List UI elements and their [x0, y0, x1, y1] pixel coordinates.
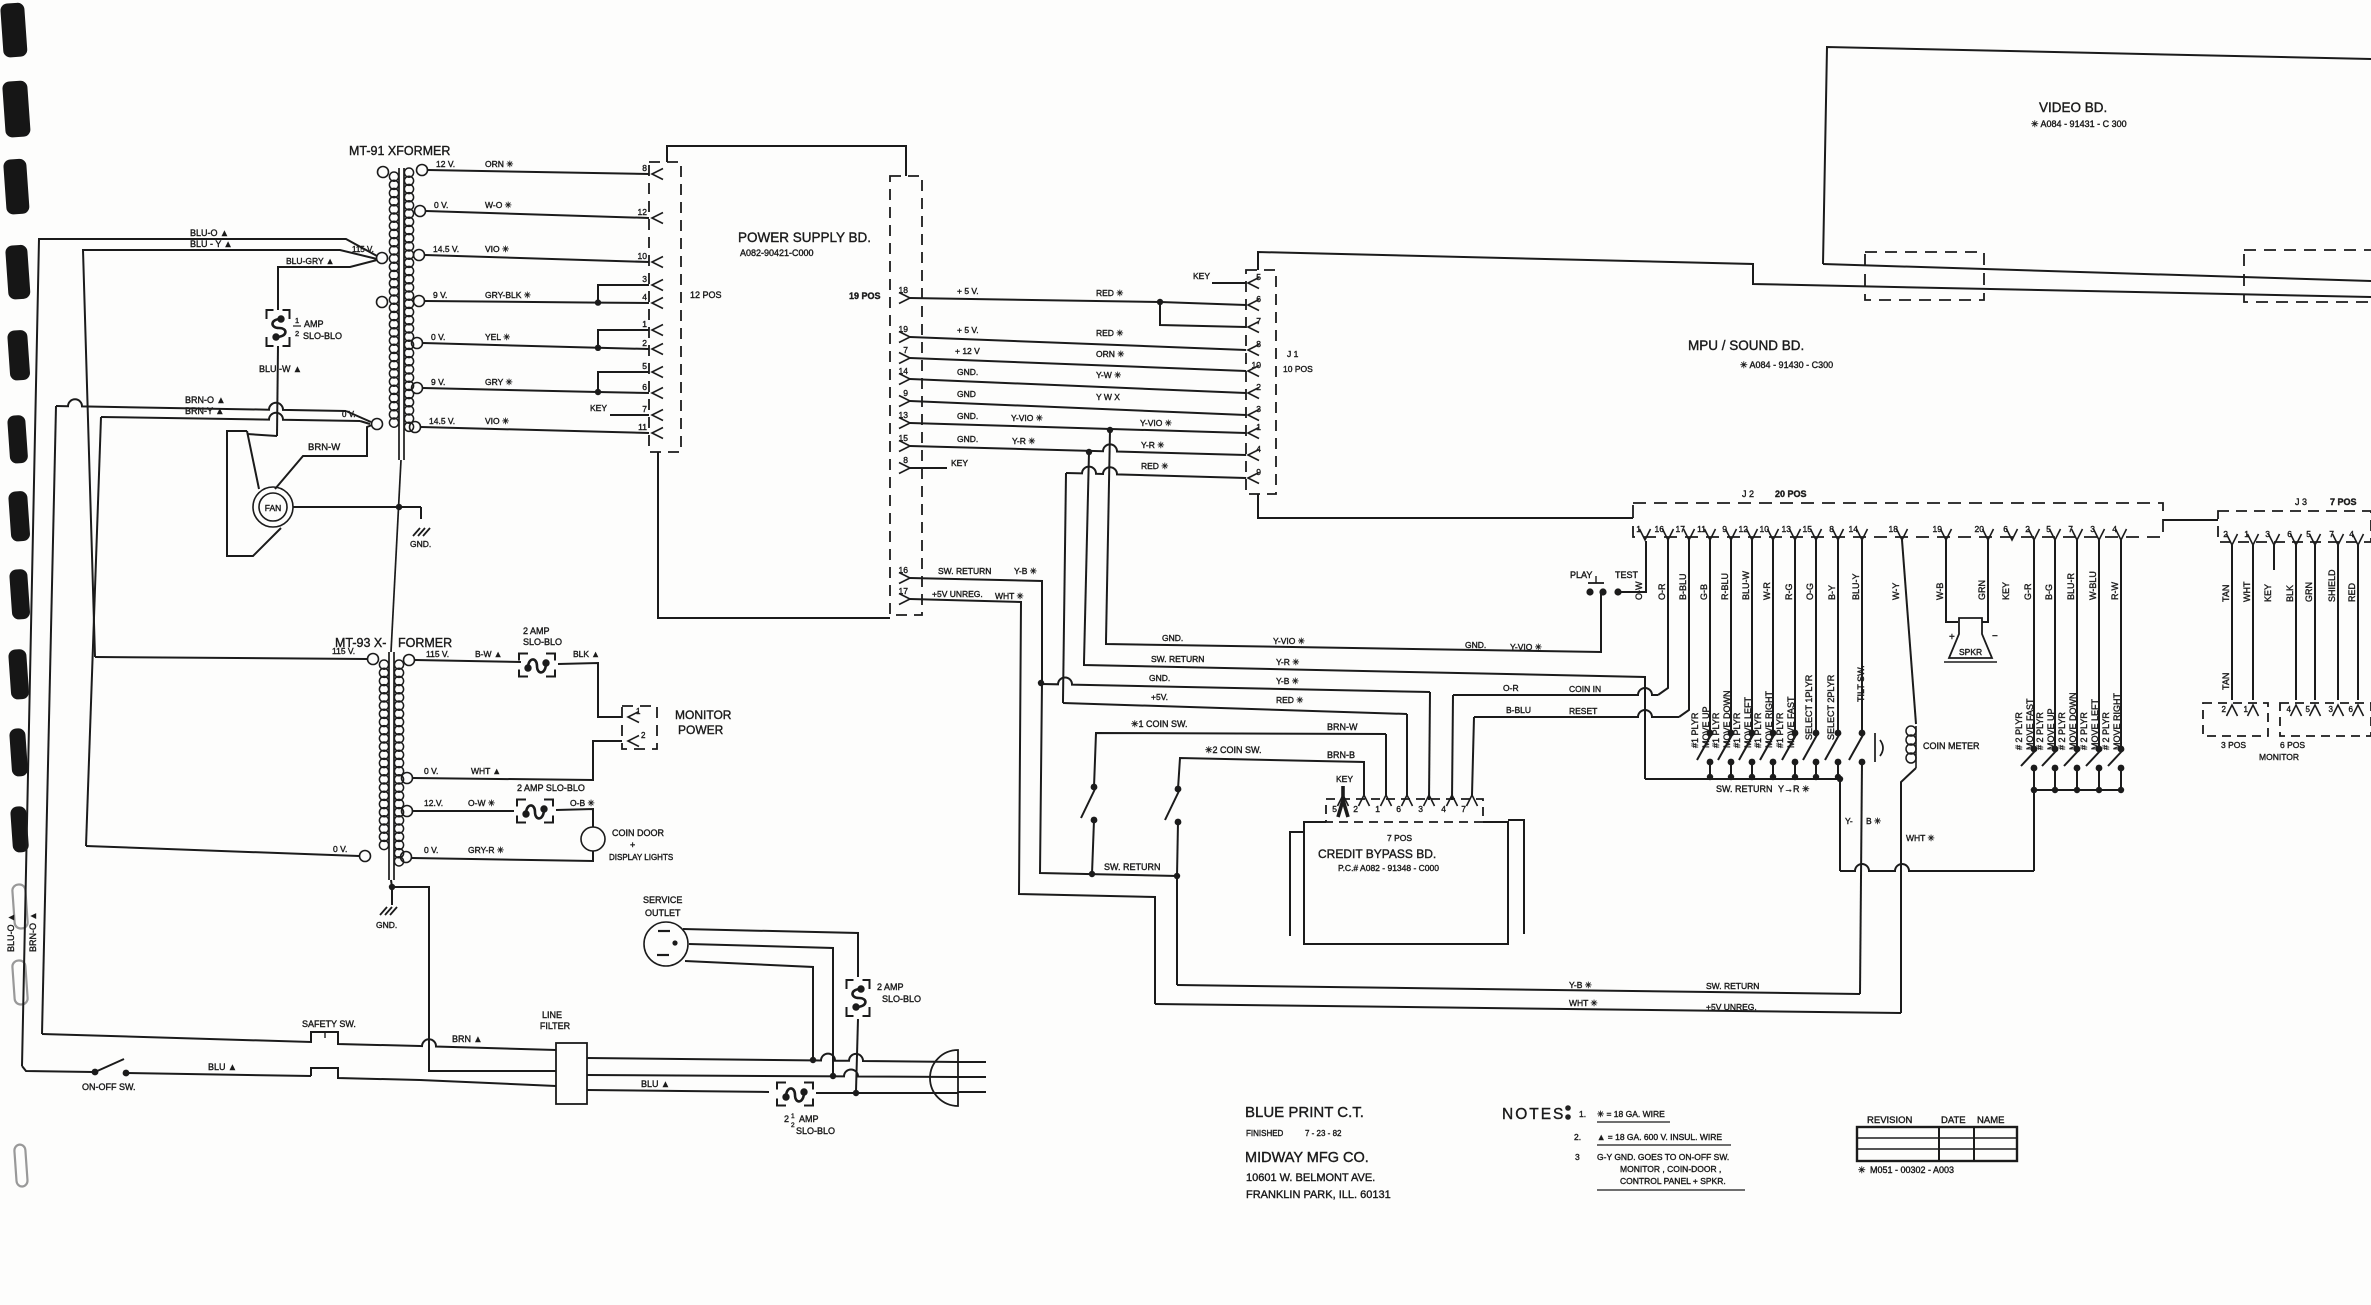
svg-text:MOVE LEFT: MOVE LEFT — [2090, 698, 2100, 750]
wire / switch #1 PLYR MOVE DOWN — [1730, 540, 1732, 733]
svg-text:RED ✳: RED ✳ — [1096, 288, 1124, 298]
wire H-D +5V / RED to credit bypass pin6 — [1062, 700, 1064, 703]
wire Y-B from tilt switch down to bottom bus — [1860, 762, 1862, 994]
svg-text:PLAY: PLAY — [1570, 570, 1592, 580]
svg-text:M051 - 00302 - A003: M051 - 00302 - A003 — [1870, 1165, 1954, 1175]
svg-text:BLU -W ▲: BLU -W ▲ — [259, 364, 302, 374]
svg-text:GND.: GND. — [957, 434, 978, 444]
svg-text:O-R: O-R — [1503, 683, 1519, 693]
transformer MT-91 primary winding — [389, 172, 398, 181]
svg-text:5: 5 — [1332, 804, 1337, 814]
wire fan to ground junction — [293, 506, 421, 508]
svg-text:# 2 PLYR: # 2 PLYR — [2057, 712, 2067, 750]
svg-text:7: 7 — [1256, 316, 1261, 326]
wire bus A drop / H1 link to player2 bus (hops Y-B and WHT) — [1839, 779, 1841, 871]
svg-text:SPKR: SPKR — [1959, 647, 1982, 657]
svg-text:115 V.: 115 V. — [352, 245, 374, 254]
wire SW.RETURN Y-B from PS pin16 down to distribution — [910, 578, 1042, 682]
svg-text:Y-: Y- — [1845, 816, 1853, 826]
board POWER SUPPLY BD. outline — [667, 146, 906, 176]
wire / switch SELECT 2PLYR — [1837, 540, 1839, 733]
svg-text:12: 12 — [1739, 524, 1749, 534]
svg-text:KEY: KEY — [590, 403, 607, 413]
svg-text:#1 PLYR: #1 PLYR — [1711, 712, 1721, 748]
svg-text:J 1: J 1 — [1287, 349, 1299, 359]
switch #1 coin switch — [1091, 784, 1098, 791]
svg-text:+: + — [1949, 632, 1955, 643]
svg-text:GRN: GRN — [2304, 582, 2314, 602]
svg-text:1: 1 — [2244, 529, 2249, 539]
svg-text:P.C.# A082 - 91348 - C000: P.C.# A082 - 91348 - C000 — [1338, 863, 1439, 873]
svg-text:SW. RETURN: SW. RETURN — [1706, 981, 1759, 991]
svg-text:W-Y: W-Y — [1891, 583, 1901, 600]
svg-text:20: 20 — [1975, 524, 1985, 534]
svg-text:KEY: KEY — [2263, 584, 2273, 602]
transformer MT-91 core — [398, 168, 400, 460]
svg-text:# 2 PLYR: # 2 PLYR — [2014, 712, 2024, 750]
svg-text:MT-91 XFORMER: MT-91 XFORMER — [349, 144, 450, 158]
svg-text:✳1 COIN SW.: ✳1 COIN SW. — [1131, 719, 1188, 729]
svg-text:Y-B ✳: Y-B ✳ — [1276, 676, 1300, 686]
wire branch junction to 12POS pin 5 — [595, 389, 601, 395]
svg-text:2: 2 — [2025, 524, 2030, 534]
svg-text:11: 11 — [638, 422, 647, 432]
MT-91 secondary terminal 0 V. / wire W-O ✳ to 12POS pin 12 — [415, 206, 426, 217]
svg-text:WHT ✳: WHT ✳ — [995, 591, 1025, 601]
svg-text:B-Y: B-Y — [1827, 585, 1837, 600]
svg-text:TAN: TAN — [2221, 585, 2231, 602]
switch ON-OFF SW. — [22, 1066, 93, 1072]
svg-text:+ 5 V.: + 5 V. — [957, 325, 979, 335]
svg-text:G-R: G-R — [2023, 583, 2033, 600]
svg-text:VIO ✳: VIO ✳ — [485, 416, 510, 426]
speaker SPKR — [1949, 618, 1992, 658]
svg-text:0 V.: 0 V. — [342, 410, 356, 419]
svg-text:Y→R ✳: Y→R ✳ — [1778, 784, 1810, 794]
svg-text:BRN-W: BRN-W — [308, 442, 340, 453]
svg-text:B-G: B-G — [2044, 584, 2054, 600]
svg-text:14: 14 — [899, 366, 909, 376]
wire middle (ground) after line filter to AC plug — [587, 1069, 958, 1077]
svg-text:CONTROL PANEL + SPKR.: CONTROL PANEL + SPKR. — [1620, 1176, 1726, 1186]
svg-text:1.: 1. — [1579, 1109, 1586, 1119]
svg-text:W-BLU: W-BLU — [2088, 571, 2098, 600]
svg-text:WHT ✳: WHT ✳ — [1906, 833, 1936, 843]
svg-text:3: 3 — [1256, 404, 1261, 414]
wire GRN J3-5 to monitor 6POS pin5 — [2314, 545, 2316, 700]
svg-text:FRANKLIN PARK, ILL. 60131: FRANKLIN PARK, ILL. 60131 — [1246, 1189, 1391, 1201]
wire sw-return bus A (player1) — [1645, 778, 1840, 780]
board CREDIT BYPASS BD. outline — [1304, 822, 1508, 944]
svg-text:+ 5 V.: + 5 V. — [957, 286, 979, 296]
svg-text:7 - 23 - 82: 7 - 23 - 82 — [1305, 1129, 1342, 1138]
svg-text:▲ = 18 GA. 600 V. INSUL. WIR: ▲ = 18 GA. 600 V. INSUL. WIRE — [1597, 1132, 1722, 1142]
svg-text:3: 3 — [642, 274, 647, 284]
svg-text:G-B: G-B — [1699, 584, 1709, 600]
svg-text:0 V.: 0 V. — [424, 766, 438, 776]
svg-text:+5V UNREG.: +5V UNREG. — [1706, 1002, 1757, 1012]
svg-text:COIN DOOR: COIN DOOR — [612, 828, 665, 838]
svg-text:SW. RETURN: SW. RETURN — [938, 566, 991, 576]
wire / switch #1 PLYR MOVE FAST — [1794, 540, 1796, 733]
svg-text:BLK: BLK — [2285, 585, 2295, 602]
svg-text:BLU ▲: BLU ▲ — [641, 1079, 670, 1089]
wire BRN after line filter to AC plug (hops, junction with service outlet) — [587, 1054, 958, 1062]
MT-91 secondary terminal 9 V. / wire GRY ✳ to 12POS pin 6 — [412, 383, 423, 394]
wire #2 COIN SW / BRN-B to credit pin2 — [1178, 758, 1364, 795]
video board right connector (dashed) — [2244, 250, 2371, 302]
svg-text:KEY: KEY — [1336, 774, 1353, 784]
svg-text:MOVE LEFT: MOVE LEFT — [1743, 696, 1753, 748]
svg-text:2: 2 — [2222, 705, 2227, 714]
MT-91 secondary terminal 14.5 V. / wire VIO ✳ to 12POS pin 11 — [410, 422, 421, 433]
svg-text:# 2 PLYR: # 2 PLYR — [2101, 712, 2111, 750]
svg-text:15: 15 — [899, 433, 909, 443]
wire / switch #1 PLYR MOVE LEFT — [1751, 540, 1753, 733]
svg-text:5: 5 — [2046, 524, 2051, 534]
svg-text:BLU-O ▲: BLU-O ▲ — [190, 228, 229, 238]
svg-text:MOVE UP: MOVE UP — [2046, 708, 2056, 750]
svg-text:A082-90421-C000: A082-90421-C000 — [740, 248, 814, 258]
wire SHIELD J3-7 to monitor 6POS pin3 — [2337, 545, 2339, 700]
wire riser RED +5V (x1066) — [1063, 473, 1066, 700]
svg-text:O-W ✳: O-W ✳ — [468, 798, 496, 808]
svg-text:MPU / SOUND BD.: MPU / SOUND BD. — [1688, 338, 1804, 353]
svg-text:2 AMP SLO-BLO: 2 AMP SLO-BLO — [517, 783, 585, 793]
svg-text:TAN: TAN — [2221, 673, 2231, 690]
wire TAN J3-2 to monitor 3POS pin2 — [2231, 545, 2233, 700]
svg-text:9: 9 — [1722, 524, 1727, 534]
svg-text:6: 6 — [2287, 529, 2292, 539]
svg-text:YEL ✳: YEL ✳ — [485, 332, 511, 342]
svg-text:0 V.: 0 V. — [424, 845, 438, 855]
svg-text:KEY: KEY — [1193, 271, 1210, 281]
svg-text:4: 4 — [2287, 705, 2292, 714]
svg-text:MONITOR: MONITOR — [2259, 752, 2299, 762]
svg-text:7 POS: 7 POS — [1387, 833, 1412, 843]
svg-text:SW. RETURN: SW. RETURN — [1151, 654, 1204, 664]
svg-text:10601 W. BELMONT AVE.: 10601 W. BELMONT AVE. — [1246, 1172, 1375, 1184]
svg-text:13: 13 — [899, 410, 909, 420]
svg-text:Y-VIO ✳: Y-VIO ✳ — [1273, 636, 1306, 646]
svg-text:GND.: GND. — [376, 920, 397, 930]
svg-text:VIO ✳: VIO ✳ — [485, 244, 510, 254]
svg-text:BLU - Y ▲: BLU - Y ▲ — [190, 239, 233, 249]
svg-text:GND.: GND. — [957, 367, 978, 377]
svg-text:1: 1 — [295, 316, 299, 325]
svg-text:ORN ✳: ORN ✳ — [485, 159, 514, 169]
svg-text:BLU-R: BLU-R — [2066, 572, 2076, 600]
wire Y-B SW.RETURN long bottom line — [1177, 985, 1860, 994]
svg-text:6: 6 — [2349, 705, 2354, 714]
svg-text:12 POS: 12 POS — [690, 290, 722, 300]
wire BLU after line filter through 2.5A fuse to AC plug — [587, 1090, 769, 1092]
wire / switch #2 PLYR MOVE RIGHT — [2120, 540, 2122, 749]
wire BLU-Y (to MT-93 primary 115V) — [83, 250, 377, 657]
svg-text:BLU-GRY ▲: BLU-GRY ▲ — [286, 256, 334, 266]
fuse 2.5 AMP SLO-BLO — [777, 1083, 813, 1106]
wire branch junction to 12POS pin 1 — [595, 345, 601, 351]
svg-text:SLO-BLO: SLO-BLO — [796, 1126, 835, 1136]
wire credit pin1 riser BRN-W — [1385, 734, 1387, 795]
svg-text:Y W X: Y W X — [1096, 392, 1120, 402]
svg-text:SELECT 1PLYR: SELECT 1PLYR — [1804, 674, 1814, 740]
svg-text:GND.: GND. — [1149, 673, 1170, 683]
svg-text:8: 8 — [1829, 524, 1834, 534]
wire BLU-W from fuse down to fan housing (BRN lines hop over) — [277, 346, 278, 436]
svg-text:MOVE UP: MOVE UP — [1701, 706, 1711, 748]
connector monitor 6 POS (dashed) — [2280, 703, 2371, 736]
wire branch +5V RED to J1 pin7 — [1160, 302, 1246, 327]
svg-text:RESET: RESET — [1569, 706, 1597, 716]
12POS pin forks and numbers — [652, 169, 663, 180]
svg-text:14: 14 — [1849, 524, 1859, 534]
svg-text:FORMER: FORMER — [398, 636, 452, 650]
svg-text:8: 8 — [1256, 339, 1261, 349]
wire H-A GND / Y-VIO to PLAY button — [1106, 592, 1601, 652]
ground symbol near fan — [420, 507, 422, 519]
svg-text:9 V.: 9 V. — [431, 377, 445, 387]
MT-93 secondary 0V terminal / wire WHT to monitor power pin 2 — [402, 773, 413, 784]
svg-text:#1 PLYR: #1 PLYR — [1753, 712, 1763, 748]
svg-text:RED ✳: RED ✳ — [1141, 461, 1169, 471]
wire BRN-Y (to MT-93 primary 0V) — [101, 413, 360, 421]
wire WHT +5V UNREG long bottom line — [1155, 1004, 1901, 1013]
wire service outlet hot to 2A fuse and BLU line — [683, 929, 858, 977]
MT-91 secondary terminal 14.5 V. / wire VIO ✳ to 12POS pin 10 — [414, 250, 425, 261]
wire GND Y-W from PS pin14 to J1 pin2 — [910, 379, 1246, 393]
svg-text:2: 2 — [1353, 804, 1358, 814]
wire service outlet to BRN line — [685, 961, 813, 1059]
svg-text:12.V.: 12.V. — [424, 798, 443, 808]
connector 7 POS credit bypass (dashed) — [1326, 799, 1483, 822]
wire BRN to line filter (hops over ground wire) — [420, 1039, 556, 1050]
connector J1 10POS (dashed) — [1246, 270, 1276, 494]
svg-text:10: 10 — [1252, 360, 1262, 370]
MT-93 secondary 12V terminal / wire O-W through 2A fuse / O-B to coin door — [402, 806, 413, 817]
svg-text:R-BLU: R-BLU — [1720, 573, 1730, 600]
AC line plug — [930, 1050, 958, 1106]
svg-text:BRN ▲: BRN ▲ — [452, 1034, 482, 1044]
svg-text:R-W: R-W — [2110, 582, 2120, 600]
wire +5V RED from PS pin19 to J1 pin8 — [910, 337, 1246, 350]
svg-text:5: 5 — [2306, 705, 2311, 714]
svg-text:DATE: DATE — [1941, 1115, 1966, 1126]
svg-text:✳: ✳ — [1858, 1165, 1866, 1175]
svg-text:2: 2 — [295, 329, 299, 338]
svg-text:8: 8 — [903, 455, 908, 465]
transformer MT-91 secondary winding — [404, 168, 413, 177]
svg-text:1: 1 — [642, 319, 647, 329]
wire BRN-O (to safety switch / line filter) — [56, 399, 346, 411]
wire GND Y-R from PS pin15 to J1 pin4 (junction, hop over Y-VIO drop) — [910, 444, 1246, 455]
svg-text:BRN-Y ▲: BRN-Y ▲ — [185, 406, 224, 416]
svg-text:4: 4 — [2349, 529, 2354, 539]
svg-text:MONITOR , COIN-DOOR ,: MONITOR , COIN-DOOR , — [1620, 1164, 1721, 1174]
svg-text:B ✳: B ✳ — [1866, 816, 1882, 826]
MT-91 primary terminals — [378, 167, 389, 178]
svg-text:POWER: POWER — [678, 723, 724, 737]
J1 pin forks and numbers — [1248, 278, 1259, 289]
svg-text:FAN: FAN — [265, 503, 282, 513]
svg-text:18: 18 — [1889, 524, 1899, 534]
svg-text:0 V.: 0 V. — [434, 200, 448, 210]
svg-text:MOVE RIGHT: MOVE RIGHT — [2112, 692, 2122, 750]
connector J2 20POS (dashed) — [1633, 503, 2163, 537]
svg-text:18: 18 — [899, 285, 909, 295]
transformer MT-93 core — [388, 652, 390, 880]
svg-text:2: 2 — [642, 338, 647, 348]
svg-text:GND: GND — [957, 389, 976, 399]
wire SW.RETURN from Y-B riser to coin switches — [1040, 682, 1177, 985]
svg-text:#1 PLYR: #1 PLYR — [1775, 712, 1785, 748]
wire riser Y-VIO (x1110) — [1106, 430, 1110, 641]
credit connector pin forks and numbers — [1338, 795, 1349, 806]
svg-text:OUTLET: OUTLET — [645, 908, 681, 918]
connector MONITOR POWER (dashed) — [622, 706, 657, 749]
svg-text:Y-R ✳: Y-R ✳ — [1141, 440, 1165, 450]
svg-text:16: 16 — [1655, 524, 1665, 534]
KEY glyph at credit pin5 — [1338, 786, 1348, 817]
svg-text:#1 PLYR: #1 PLYR — [1690, 712, 1700, 748]
wire riser Y-R (x1089) — [1084, 452, 1089, 662]
svg-text:MOVE FAST: MOVE FAST — [1786, 696, 1796, 748]
svg-text:1: 1 — [636, 707, 641, 716]
svg-text:20 POS: 20 POS — [1775, 489, 1807, 499]
svg-text:4: 4 — [2112, 524, 2117, 534]
svg-text:0 V.: 0 V. — [333, 844, 347, 854]
svg-text:2: 2 — [791, 1122, 795, 1129]
svg-text:17: 17 — [1676, 524, 1686, 534]
svg-text:GND.: GND. — [957, 411, 978, 421]
svg-text:6: 6 — [1396, 804, 1401, 814]
svg-text:NAME: NAME — [1977, 1115, 2004, 1126]
svg-text:CREDIT BYPASS BD.: CREDIT BYPASS BD. — [1318, 847, 1436, 861]
svg-text:2: 2 — [641, 731, 646, 740]
svg-text:4: 4 — [642, 292, 647, 302]
wire W-B from J2 pin19 to speaker + — [1946, 540, 1958, 622]
svg-text:# 2 PLYR: # 2 PLYR — [2035, 712, 2045, 750]
svg-text:MONITOR: MONITOR — [675, 708, 732, 722]
wire BLU from on-off switch to safety switch — [126, 1073, 311, 1076]
wire / switch #2 PLYR MOVE UP — [2054, 540, 2056, 749]
12POS KEY stub pin 7 — [610, 414, 649, 416]
svg-text:SW. RETURN: SW. RETURN — [1716, 784, 1773, 794]
svg-text:13: 13 — [1782, 524, 1792, 534]
binder hole margin marks — [0, 2, 28, 58]
svg-text:AMP: AMP — [304, 319, 324, 329]
svg-text:LINE: LINE — [542, 1010, 562, 1020]
svg-text:6: 6 — [642, 382, 647, 392]
svg-text:KEY: KEY — [951, 458, 968, 468]
fuse 2 AMP SLO-BLO (monitor) — [519, 654, 555, 677]
coil COIN METER — [1906, 726, 1916, 736]
svg-text:BRN-B: BRN-B — [1327, 750, 1355, 760]
wire branch junction to 12POS pin 3 — [595, 299, 601, 305]
wire / switch #2 PLYR MOVE FAST — [2033, 540, 2035, 749]
svg-text:+5V UNREG.: +5V UNREG. — [932, 589, 983, 599]
19POS pin forks and numbers — [899, 293, 910, 304]
svg-text:4: 4 — [1256, 444, 1261, 454]
svg-text:2 AMP: 2 AMP — [523, 626, 550, 636]
svg-text:FILTER: FILTER — [540, 1021, 571, 1031]
wire #1 COIN SW / BRN-W to credit pin6 — [1094, 733, 1386, 787]
svg-text:Y-VIO ✳: Y-VIO ✳ — [1011, 413, 1044, 423]
svg-text:VIDEO BD.: VIDEO BD. — [2039, 100, 2107, 115]
chassis symbol between PLAY and TEST — [1588, 582, 1604, 584]
svg-text:BRN-O ▲: BRN-O ▲ — [28, 912, 38, 952]
19POS pin8 KEY stub — [910, 467, 947, 469]
svg-text:Y-R ✳: Y-R ✳ — [1276, 657, 1300, 667]
svg-text:BLU-Y: BLU-Y — [1851, 573, 1861, 600]
svg-text:SW. RETURN: SW. RETURN — [1104, 862, 1161, 872]
wire service outlet to ground line — [689, 944, 833, 1074]
svg-text:1: 1 — [2244, 705, 2249, 714]
wire GND Y-VIO from PS pin13 to J1 pin1 (junction to distribution) — [910, 423, 1246, 433]
svg-text:1: 1 — [1636, 524, 1641, 534]
wire BLK J3-6 to monitor 6POS pin4 — [2295, 545, 2297, 700]
component FAN — [253, 487, 293, 527]
svg-text:ORN ✳: ORN ✳ — [1096, 349, 1125, 359]
J2-J3 link wire — [2163, 519, 2218, 521]
wire BLU lower run to line filter — [420, 1080, 556, 1086]
svg-text:1: 1 — [1375, 804, 1380, 814]
svg-text:19: 19 — [1933, 524, 1943, 534]
svg-text:✳2 COIN SW.: ✳2 COIN SW. — [1205, 745, 1262, 755]
svg-text:MIDWAY MFG CO.: MIDWAY MFG CO. — [1245, 1150, 1369, 1166]
svg-text:Y-B ✳: Y-B ✳ — [1014, 566, 1038, 576]
connector 12 POS (dashed) — [649, 162, 681, 452]
svg-text:WHT ✳: WHT ✳ — [1569, 998, 1599, 1008]
svg-text:9: 9 — [1256, 467, 1261, 477]
svg-text:4: 4 — [1441, 804, 1446, 814]
svg-text:AMP: AMP — [799, 1114, 819, 1124]
wire sw-return bus B (player2) — [2034, 789, 2121, 791]
svg-text:SAFETY SW.: SAFETY SW. — [302, 1019, 356, 1029]
svg-text:9 V.: 9 V. — [433, 290, 447, 300]
wire WHT J3-1 to monitor 3POS pin1 — [2252, 545, 2254, 700]
wire H-C GND / Y-B to credit bypass pin3 (hop over RED riser) — [1038, 680, 1044, 686]
wire GND from transformer junction down to plug middle line — [392, 887, 556, 1071]
svg-text:GRY ✳: GRY ✳ — [485, 377, 513, 387]
svg-text:RED ✳: RED ✳ — [1096, 328, 1124, 338]
svg-text:SELECT 2PLYR: SELECT 2PLYR — [1826, 674, 1836, 740]
svg-text:Y-R ✳: Y-R ✳ — [1012, 436, 1036, 446]
wire W-Y from J2 pin18 to coin meter — [1902, 540, 1916, 724]
fan housing — [227, 431, 281, 556]
svg-text:RED ✳: RED ✳ — [1276, 695, 1304, 705]
J1 pin5 KEY stub — [1212, 282, 1246, 284]
svg-text:O-R: O-R — [1657, 583, 1667, 600]
svg-text:# 2 PLYR: # 2 PLYR — [2079, 712, 2089, 750]
wire H-B SW.RETURN / Y-R to switch bus — [1084, 662, 1645, 779]
wire KEY stub J3-3 — [2273, 545, 2275, 570]
svg-text:14.5 V.: 14.5 V. — [433, 244, 459, 254]
svg-text:#1 PLYR: #1 PLYR — [1732, 712, 1742, 748]
J2 pin forks, numbers and rotated wire labels — [1640, 529, 1651, 540]
wire / switch #2 PLYR MOVE LEFT — [2098, 540, 2100, 749]
fuse 2 AMP SLO-BLO (service outlet) — [847, 980, 870, 1016]
wire / switch #1 PLYR MOVE UP — [1709, 540, 1711, 733]
svg-text:3 POS: 3 POS — [2221, 740, 2246, 750]
wire B-BLU RESET from credit pin7 riser to J2 pin17 — [1472, 717, 1474, 795]
switch #2 coin switch — [1175, 786, 1182, 793]
transformer MT-93 primary winding — [379, 660, 388, 669]
wire RED from distribution riser to J1 pin9 (hops) — [1066, 467, 1246, 478]
svg-text:+ 12 V: + 12 V — [955, 346, 980, 356]
svg-text:5: 5 — [1256, 272, 1261, 282]
svg-text:SERVICE: SERVICE — [643, 895, 682, 905]
